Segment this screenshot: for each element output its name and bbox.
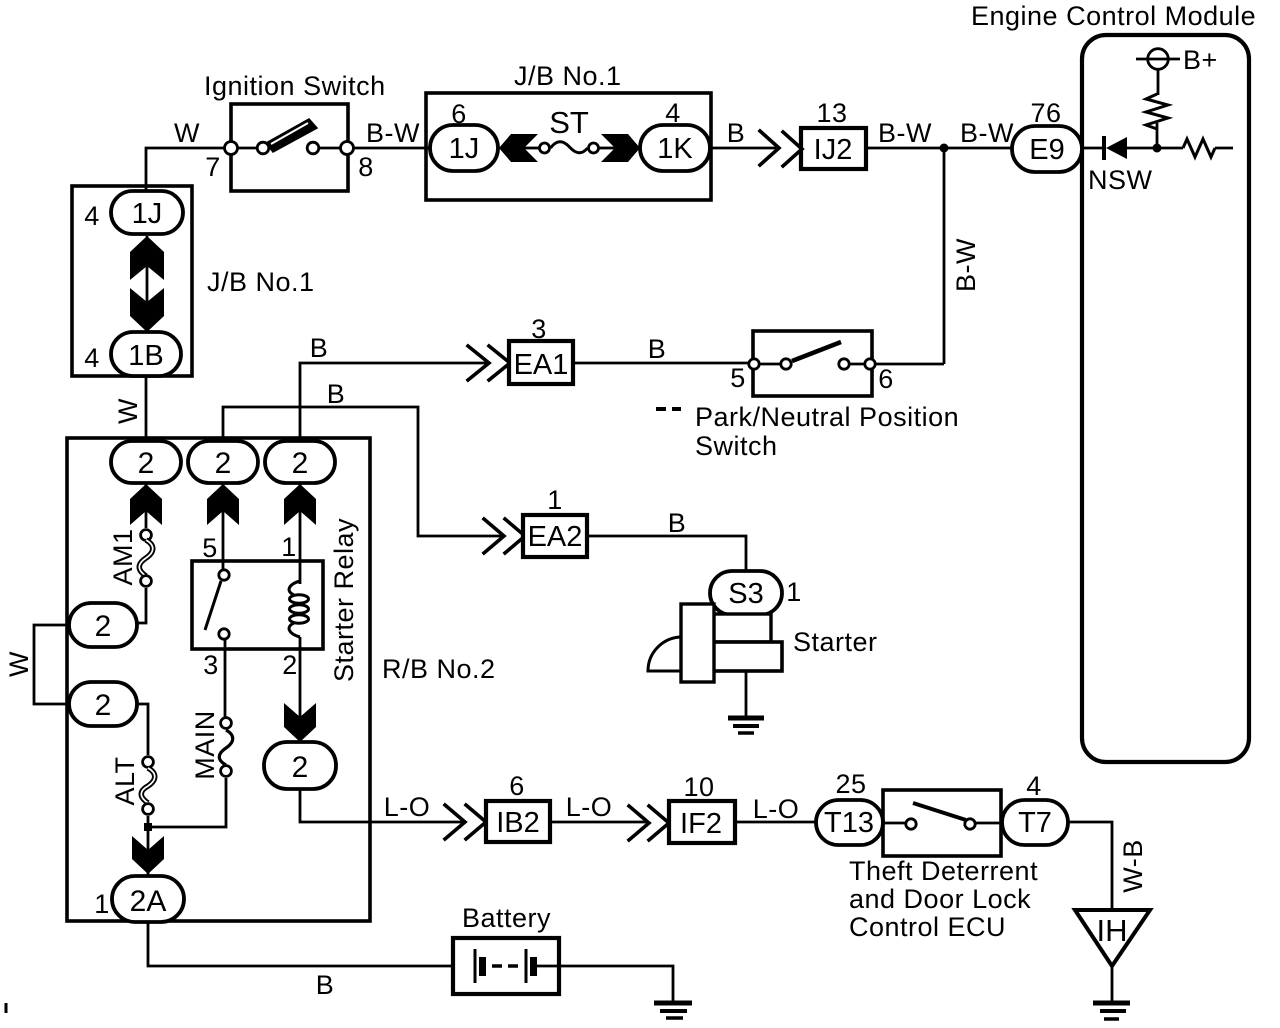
double arrow J/B internal — [130, 236, 164, 332]
svg-text:Theft Deterrent: Theft Deterrent — [849, 856, 1038, 886]
relay coil and contacts: starter relay K1 — [192, 518, 359, 682]
svg-text:2: 2 — [95, 689, 112, 722]
battery BAT1 — [453, 903, 559, 994]
connector 2 (row 3) — [265, 441, 335, 483]
svg-text:Switch: Switch — [695, 431, 778, 461]
wire internal ignition 8 side — [319, 147, 341, 150]
stray scan mark — [5, 1003, 8, 1013]
theft deterrent ECU box — [849, 790, 1038, 942]
svg-text:1: 1 — [547, 485, 563, 515]
ground point IH — [1075, 910, 1150, 966]
wire MAIN to junction — [150, 778, 226, 827]
wire W to ignition — [146, 148, 225, 192]
svg-text:EA2: EA2 — [528, 521, 583, 553]
svg-text:7: 7 — [205, 152, 221, 182]
svg-text:3: 3 — [203, 650, 219, 680]
wire internal ignition 7 side — [238, 147, 257, 150]
node B+ — [1136, 45, 1218, 75]
svg-text:IJ2: IJ2 — [814, 134, 853, 166]
wire battery to ground — [537, 966, 673, 1001]
fuse AM1 — [108, 528, 153, 586]
connector chevrons to EA2 — [484, 519, 525, 553]
stray dashes — [656, 407, 681, 411]
connector 2 (side upper) — [69, 603, 137, 647]
arrow down to 2A — [132, 836, 164, 874]
svg-text:25: 25 — [835, 769, 866, 799]
P/N internal wires — [760, 363, 864, 366]
wire B 2A to battery — [148, 922, 473, 966]
ground battery — [654, 1003, 692, 1018]
wire 2 side lower to ALT — [137, 704, 148, 755]
svg-text:Control ECU: Control ECU — [849, 912, 1006, 942]
relay block R/B No.2 — [67, 438, 496, 921]
svg-text:B-W: B-W — [951, 238, 981, 292]
resistor R2 — [1183, 139, 1215, 157]
P/N lever — [792, 342, 841, 361]
svg-text:ALT: ALT — [110, 756, 140, 805]
junction box IF2 pin 10 — [669, 772, 735, 843]
wire B 1K to IJ2 — [711, 147, 776, 150]
connector chevrons to EA1 — [468, 346, 510, 380]
svg-text:S3: S3 — [728, 578, 763, 610]
svg-text:5: 5 — [730, 363, 746, 393]
arrow left (ST feed) — [499, 134, 538, 162]
connector 1J pin 4 (left) — [84, 191, 183, 234]
svg-text:L-O: L-O — [384, 792, 431, 822]
wire EA1 net from 2 row3 — [300, 363, 489, 441]
svg-text:IF2: IF2 — [680, 808, 722, 840]
relay contact circles — [219, 570, 229, 580]
svg-text:1: 1 — [786, 577, 802, 607]
svg-text:E9: E9 — [1029, 134, 1064, 166]
park/neutral position switch SW2 — [695, 331, 959, 461]
wire ignition to 1J — [353, 147, 430, 150]
wire starter to ground — [745, 671, 748, 716]
svg-text:2: 2 — [215, 447, 232, 480]
svg-text:B: B — [310, 333, 329, 363]
svg-text:L-O: L-O — [566, 792, 613, 822]
svg-text:1B: 1B — [128, 340, 163, 372]
connector 1K pin 4 — [640, 98, 710, 171]
wire AM1 to 2 side oval — [137, 588, 146, 623]
junction internal ECM — [1153, 144, 1162, 153]
svg-text:4: 4 — [84, 343, 100, 373]
svg-text:1: 1 — [281, 532, 297, 562]
wire EA2 net from 2 row2 — [223, 407, 505, 536]
junction box EA1 pin 3 — [509, 314, 573, 384]
svg-text:T13: T13 — [824, 807, 874, 839]
svg-text:B: B — [668, 508, 687, 538]
wire fuse to arrow — [599, 147, 615, 150]
wire arrow to fuse — [524, 147, 539, 150]
connector 2 (row 2) — [188, 441, 258, 483]
svg-text:4: 4 — [84, 201, 100, 231]
connector 2 (row 1) — [111, 441, 181, 483]
ground IH — [1093, 1003, 1130, 1019]
svg-text:B: B — [327, 379, 346, 409]
svg-text:4: 4 — [1026, 771, 1042, 801]
wire W-B T7 to IH — [1068, 822, 1112, 910]
wire E9 to diode — [1080, 147, 1102, 150]
resistor R1 (pull-up) — [1146, 94, 1168, 129]
wire P/N to B-W vertical — [876, 363, 944, 366]
svg-text:W: W — [113, 398, 143, 424]
svg-text:and Door Lock: and Door Lock — [849, 884, 1031, 914]
svg-text:1: 1 — [94, 889, 110, 919]
theft switch circles — [906, 819, 916, 829]
svg-text:2: 2 — [292, 447, 309, 480]
svg-text:Ignition Switch: Ignition Switch — [204, 71, 386, 101]
svg-text:2: 2 — [292, 751, 309, 784]
svg-text:R/B No.2: R/B No.2 — [382, 654, 496, 684]
fuse ALT — [110, 756, 155, 814]
wire B-W vertical — [943, 148, 946, 364]
svg-text:J/B No.1: J/B No.1 — [514, 61, 622, 91]
wire resistor R2 stub — [1215, 147, 1233, 150]
svg-text:B-W: B-W — [960, 118, 1014, 148]
connector 2 (relay output) — [264, 742, 336, 789]
wire IH to ground — [1111, 966, 1114, 1001]
wire L-O from 2 outlet — [300, 789, 462, 822]
wire EA2 to S3 — [587, 536, 746, 572]
connector E9 pin 76 — [1012, 98, 1082, 172]
svg-text:B: B — [648, 334, 667, 364]
junction block J/B No.1 (left) — [72, 186, 315, 376]
svg-text:2A: 2A — [130, 885, 167, 918]
svg-text:EA1: EA1 — [514, 349, 569, 381]
svg-text:L-O: L-O — [753, 794, 800, 824]
wire relay pin2 to 2 outlet — [299, 637, 302, 743]
arrow up under 2 row1 — [130, 483, 162, 528]
arrow up under 2 row2 — [207, 483, 239, 569]
arrow right (ST feed) — [601, 134, 640, 162]
svg-text:Starter Relay: Starter Relay — [329, 518, 359, 682]
svg-text:Starter: Starter — [793, 627, 878, 657]
svg-text:5: 5 — [202, 533, 218, 563]
svg-text:2: 2 — [95, 610, 112, 643]
wire B-W IJ2 to E9 — [866, 147, 1012, 150]
junction box IJ2 pin 13 — [801, 98, 866, 169]
svg-text:Park/Neutral Position: Park/Neutral Position — [695, 402, 959, 432]
ignition lever — [266, 119, 317, 152]
svg-text:IH: IH — [1097, 913, 1128, 948]
wire diode to junction — [1127, 147, 1183, 150]
svg-text:ST: ST — [549, 105, 589, 140]
junction node B-W — [940, 144, 949, 153]
ground starter — [728, 718, 764, 733]
svg-text:1J: 1J — [449, 133, 480, 165]
connector 1B pin 4 — [84, 332, 181, 376]
svg-text:B-W: B-W — [878, 118, 932, 148]
svg-text:B: B — [727, 118, 746, 148]
svg-text:76: 76 — [1030, 98, 1061, 128]
svg-text:1K: 1K — [657, 133, 693, 165]
junction box EA2 pin 1 — [523, 485, 587, 557]
connector T13 pin 25 — [816, 769, 883, 845]
ignition switch SW1 — [204, 71, 386, 191]
wire IB2 to IF2 — [550, 821, 646, 824]
svg-text:10: 10 — [683, 772, 714, 802]
wire IF2 to T13 — [735, 821, 816, 824]
terminal circles ignition — [225, 142, 238, 155]
P/N terminal circles — [749, 359, 759, 369]
diode NSW D1 — [1088, 136, 1153, 195]
svg-text:AM1: AM1 — [108, 528, 138, 585]
connector 2 (side lower) — [69, 682, 137, 726]
svg-text:6: 6 — [878, 364, 894, 394]
svg-text:13: 13 — [816, 98, 847, 128]
svg-text:Engine Control Module: Engine Control Module — [971, 1, 1256, 31]
relay contact lever — [205, 581, 221, 630]
connector chevrons to IJ2 — [760, 131, 802, 166]
svg-text:B+: B+ — [1183, 45, 1218, 75]
svg-text:IB2: IB2 — [496, 807, 540, 839]
svg-text:B: B — [316, 970, 335, 1000]
wire EA1 to P/N switch — [573, 362, 748, 365]
connector 2A pin 1 — [94, 876, 184, 922]
svg-text:NSW: NSW — [1088, 165, 1153, 195]
connector 1J pin 6 — [430, 99, 498, 171]
junction block J/B No.1 (top) — [426, 61, 711, 200]
svg-text:J/B No.1: J/B No.1 — [207, 267, 315, 297]
svg-text:2: 2 — [282, 650, 298, 680]
svg-text:B-W: B-W — [366, 118, 420, 148]
svg-text:8: 8 — [358, 152, 374, 182]
arrow down to 2 outlet — [284, 703, 316, 742]
wire relay pin3 to MAIN — [224, 640, 227, 717]
starter motor M1 — [648, 604, 878, 682]
wire W 1B down to R/B — [145, 376, 148, 441]
arrow up under 2 row3 — [284, 483, 316, 584]
connector chevrons to IB2 — [445, 805, 486, 839]
svg-text:W-B: W-B — [1118, 839, 1148, 893]
svg-text:2: 2 — [138, 447, 155, 480]
svg-text:W: W — [4, 651, 34, 677]
connector S3 pin 1 — [710, 571, 802, 615]
svg-text:MAIN: MAIN — [190, 710, 220, 780]
svg-text:T7: T7 — [1018, 807, 1052, 839]
theft switch lever — [913, 803, 966, 820]
wire W bracket — [34, 625, 69, 704]
Engine Control Module U-ECM — [971, 1, 1256, 762]
junction box IB2 pin 6 — [486, 771, 550, 842]
wire B+ to resistor — [1157, 70, 1160, 95]
svg-text:6: 6 — [509, 771, 525, 801]
connector chevrons to IF2 — [629, 806, 669, 840]
theft internal wires — [883, 822, 1002, 825]
relay coil L1 — [289, 581, 308, 637]
svg-text:W: W — [174, 118, 200, 148]
wire ALT to 2A — [147, 816, 150, 876]
fuse MAIN — [190, 710, 233, 780]
svg-text:1J: 1J — [132, 198, 163, 230]
connector T7 pin 4 — [1002, 771, 1068, 845]
fuse ST — [540, 105, 599, 153]
junction ALT-MAIN — [144, 823, 152, 831]
svg-text:Battery: Battery — [462, 903, 551, 933]
wire resistor to junction — [1156, 123, 1159, 148]
